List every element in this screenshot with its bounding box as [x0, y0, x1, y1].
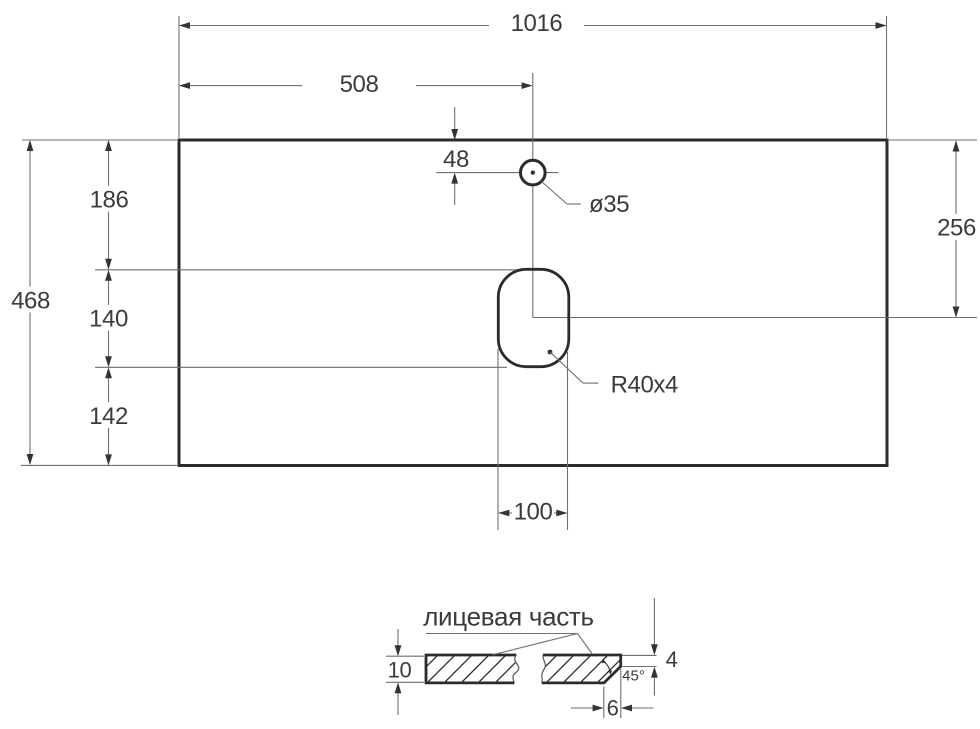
leader and label R40x4 — [550, 352, 678, 399]
dimension 6 (chamfer width) — [571, 669, 654, 721]
dimension 186 — [86, 140, 132, 270]
svg-text:142: 142 — [89, 403, 128, 430]
dimension 468 (overall depth) — [7, 140, 53, 465]
section: left piece outline — [426, 655, 516, 683]
extension line left at y=140 — [22, 139, 177, 141]
leader dot on sink corner — [548, 350, 553, 355]
dimension 142 — [86, 367, 132, 465]
dimension 508 — [179, 71, 533, 98]
extension line left top (x=179) — [178, 16, 180, 138]
label: litsevaya chast (face side) — [423, 602, 594, 632]
leaders from label to both pieces — [426, 634, 592, 656]
svg-text:ø35: ø35 — [589, 191, 629, 218]
vertical centerline through faucet hole — [532, 73, 534, 318]
dimension 10 (section thickness) — [386, 629, 424, 715]
dimension 48 (top edge to faucet center) — [439, 107, 473, 205]
label 45deg — [622, 668, 645, 685]
countertop outline (plan view 1016x468) — [179, 140, 887, 466]
svg-text:48: 48 — [443, 146, 469, 173]
extension line at y=367.3 (sink bottom) — [95, 366, 507, 368]
faucet hole o35 — [521, 160, 546, 185]
dimension 140 — [86, 270, 132, 368]
extension line at y=269.8 (sink top) — [95, 269, 516, 271]
svg-text:6: 6 — [607, 696, 619, 721]
svg-text:140: 140 — [89, 306, 128, 333]
svg-text:100: 100 — [514, 499, 553, 526]
horizontal reference line at sink center to right edge — [533, 317, 977, 319]
section: right piece hatching — [526, 652, 662, 686]
dimension 1016 — [179, 10, 887, 37]
svg-text:4: 4 — [666, 647, 678, 672]
section: right piece outline with 45deg chamfer — [542, 655, 621, 683]
svg-text:10: 10 — [388, 658, 412, 683]
svg-text:508: 508 — [340, 71, 379, 98]
svg-text:256: 256 — [937, 215, 976, 242]
section: right piece break line — [542, 655, 546, 683]
svg-text:1016: 1016 — [511, 10, 563, 37]
svg-text:186: 186 — [90, 187, 129, 214]
svg-text:45°: 45° — [622, 668, 645, 685]
dimension 256 — [934, 141, 980, 318]
extension line right top (x=886.5) — [886, 16, 888, 138]
dimension 100 — [498, 499, 567, 526]
sink cutout rounded rectangle R40 — [498, 269, 569, 366]
section: left piece hatching — [407, 652, 560, 686]
angle arc 45deg with arrowheads — [602, 659, 612, 675]
dimension 4 (chamfer height) — [622, 598, 678, 696]
extension line left at y=465.4 — [21, 464, 177, 466]
svg-text:468: 468 — [11, 288, 50, 315]
leader and label o35 — [542, 182, 630, 219]
svg-text:R40x4: R40x4 — [611, 372, 678, 399]
extension lines for 100 below sink — [498, 349, 568, 530]
svg-text:лицевая часть: лицевая часть — [423, 602, 594, 632]
section: left piece break line — [513, 655, 519, 683]
faucet hole crosshair horizontal — [436, 172, 559, 174]
extension line right at y=140 — [888, 139, 977, 141]
